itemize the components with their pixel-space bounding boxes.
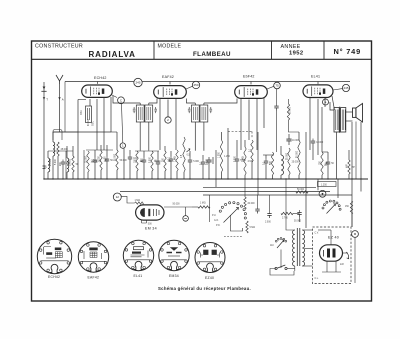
node N10 jack (319, 190, 326, 197)
svg-text:P.O.: P.O. (216, 225, 221, 227)
capacitor C5 (142, 158, 146, 165)
boxed label 1.250 (318, 182, 337, 187)
junction (43, 178, 44, 179)
IF transformer IFT1 (133, 105, 157, 122)
resistor R24a (281, 212, 293, 214)
wire (176, 171, 178, 179)
wire node N9 left (121, 196, 134, 203)
potentiometer P1 volume (183, 137, 191, 172)
svg-text:C.V.: C.V. (315, 233, 320, 235)
svg-text:10.000: 10.000 (316, 142, 324, 144)
tube V2 EAF42 envelope (154, 86, 187, 99)
resistor R17 (348, 160, 355, 174)
mains switch S3 (275, 265, 295, 270)
wire (321, 175, 323, 179)
wire (189, 165, 191, 180)
svg-text:50.000: 50.000 (173, 204, 181, 206)
wire (157, 151, 159, 160)
node N11 (352, 231, 359, 238)
wire V2 top to bus (169, 82, 171, 85)
svg-text:50.000: 50.000 (115, 153, 117, 161)
junction (143, 178, 144, 179)
svg-text:G.O.: G.O. (214, 220, 219, 222)
wire EZ40 anode top (330, 230, 332, 245)
wire R5 up (116, 132, 118, 150)
node N9 (113, 193, 121, 201)
svg-text:25.000: 25.000 (290, 106, 292, 114)
svg-text:RADIALVA: RADIALVA (89, 50, 136, 59)
power transformer T1 secondary (302, 230, 304, 266)
wire (298, 175, 300, 179)
svg-text:5.000: 5.000 (207, 159, 209, 165)
wire (272, 175, 274, 179)
wire (236, 164, 238, 180)
wire C20 to EL41 grid (276, 111, 278, 153)
wire (221, 172, 223, 179)
dashed AVC line (228, 131, 252, 133)
resistor R23a (296, 191, 308, 193)
wire (298, 132, 300, 140)
wire (251, 162, 253, 179)
svg-text:2.000: 2.000 (265, 222, 271, 224)
wire x216 bus to rail (215, 179, 217, 187)
wire node N3 down (276, 89, 278, 104)
svg-text:250: 250 (193, 83, 198, 87)
tube V3 EBF42 envelope (235, 86, 268, 99)
wire IFT2 right up (203, 103, 205, 105)
resistor R26 (287, 104, 289, 120)
capacitor C6 (156, 160, 160, 167)
svg-text:ECH42: ECH42 (94, 76, 107, 80)
wire antenna cluster top rail (53, 131, 78, 133)
node N4 (342, 84, 349, 91)
wire T1 primary top (286, 179, 295, 230)
svg-text:EZ 40: EZ 40 (328, 236, 339, 240)
svg-text:OSC: OSC (81, 110, 83, 115)
wire node N8 to V4 (324, 98, 327, 101)
junction (189, 178, 190, 179)
wire R1 down (57, 156, 59, 179)
svg-text:EbF42: EbF42 (243, 75, 255, 79)
dashed dial lamp wire (224, 236, 242, 238)
wire (202, 155, 204, 160)
wire cathode rail V4 (322, 151, 328, 153)
wire C4 up (129, 150, 131, 155)
capacitor C1 (61, 160, 71, 167)
capacitor C17 (255, 207, 259, 214)
wire R4 up (100, 145, 102, 151)
wire osc cathode stub (78, 99, 86, 101)
wire IFT1 to V2 (149, 99, 157, 104)
capacitor C20 (274, 104, 278, 111)
oscillator coil L2 (81, 106, 92, 123)
svg-text:1 MΩ: 1 MΩ (135, 200, 141, 202)
wire (183, 172, 185, 179)
wire IFT1 right down (148, 122, 150, 151)
wire (170, 151, 172, 157)
svg-text:2.700: 2.700 (282, 218, 288, 220)
socket X3 (123, 240, 153, 270)
svg-text:N° 749: N° 749 (334, 47, 361, 56)
junction (94, 178, 95, 179)
wire IFT2 right down (203, 122, 205, 151)
wire L1a down (52, 156, 54, 179)
wire L1b down (47, 172, 49, 179)
wire (151, 171, 153, 179)
wire left cluster tie (48, 150, 73, 152)
wire x361 drop (360, 179, 362, 192)
svg-text:Schéma général du récepteur Fl: Schéma général du récepteur Flambeau. (158, 286, 251, 291)
svg-text:75: 75 (275, 84, 279, 88)
wire (265, 166, 267, 180)
wire EZ40 output (343, 252, 349, 254)
wire (265, 155, 267, 159)
socket X5 (195, 243, 225, 273)
wire (348, 150, 350, 160)
dashed AVC drop (251, 132, 253, 139)
wire x216 down (215, 150, 217, 179)
tone switch S2 (322, 200, 341, 214)
wire (143, 165, 145, 180)
junction (327, 178, 328, 179)
wire x228 down (227, 128, 229, 179)
antenna A1 (earth/lead-in) (41, 82, 48, 179)
svg-text:ANNEE: ANNEE (281, 44, 301, 50)
svg-text:50.000: 50.000 (120, 160, 128, 162)
wire V1 pin down 2 (103, 98, 105, 150)
svg-text:ECH42: ECH42 (48, 275, 60, 279)
wire (288, 175, 290, 179)
junction (157, 178, 158, 179)
resistor R18 1 Mohm (135, 200, 144, 205)
wire R2 up (72, 146, 74, 156)
wire switch return loop (230, 215, 242, 231)
resistor R16 (321, 152, 329, 175)
wire V2 pin down 2 (175, 99, 177, 150)
wire V4 cathode down (321, 107, 323, 152)
junction (52, 178, 53, 179)
svg-text:1 MΩ: 1 MΩ (175, 156, 177, 162)
wire IFT1 right up (148, 103, 150, 105)
resistor R3 (87, 151, 99, 172)
svg-text:T: T (46, 98, 48, 102)
inductor L1a (53, 142, 55, 156)
wire (312, 146, 314, 161)
svg-text:5.000: 5.000 (235, 156, 237, 162)
wire OPT primary top (330, 102, 334, 110)
wire OPT to speaker (346, 111, 353, 113)
header separator line (32, 58, 372, 60)
wire T1 primary bottom (294, 266, 296, 271)
resistor R13 (271, 152, 273, 175)
wire rail IFT1 (135, 150, 159, 152)
wire C3 up (106, 145, 108, 157)
resistor R20b (198, 206, 210, 208)
wire mains lead (270, 269, 294, 276)
wire (202, 167, 204, 180)
wire IFT2 left up (194, 103, 196, 105)
wire x258 down (257, 132, 259, 179)
svg-text:OSC: OSC (93, 121, 95, 126)
IF transformer IFT2 (188, 105, 212, 122)
resistor R21a (244, 197, 246, 209)
inductor L1b (48, 158, 50, 172)
antenna coupling bracket (53, 130, 62, 141)
capacitor C12 (264, 159, 273, 166)
svg-text:HP: HP (352, 167, 356, 169)
svg-text:5.000: 5.000 (150, 157, 152, 163)
svg-text:C.L.: C.L. (315, 278, 320, 280)
capacitor C18 (267, 211, 271, 218)
tube EM34 (tuning indicator) (136, 205, 164, 220)
loudspeaker LS (353, 104, 363, 123)
junction (62, 178, 63, 179)
resistor R14 (288, 148, 300, 175)
wire x65 bus drop (64, 82, 66, 133)
junction (257, 178, 258, 179)
resistor R2 (72, 156, 79, 172)
capacitor C19 (297, 210, 301, 217)
svg-text:1.250: 1.250 (321, 185, 327, 187)
resistor R22a (246, 221, 248, 233)
wire tone net (293, 213, 300, 215)
resistor R12 (251, 140, 253, 162)
resistor P1 (183, 137, 191, 172)
wire x258 bus to rail (257, 179, 259, 195)
capacitor C9 (201, 160, 210, 167)
rail y187 (203, 186, 316, 188)
wire IFT2 to V2 plate (187, 99, 196, 104)
wire EZ40 legs (322, 261, 341, 272)
resistor R10 (220, 140, 230, 172)
socket X1 (37, 239, 71, 273)
rail y195 (203, 194, 352, 196)
wire T1 secondary taps (302, 229, 312, 231)
wire tuning gang rail (53, 131, 111, 133)
svg-text:MODELE: MODELE (158, 44, 182, 50)
wire L1c up (66, 146, 68, 158)
ground bus (44, 178, 368, 180)
junction (106, 178, 107, 179)
capacitor C3 (105, 157, 114, 164)
wire R26 top (288, 99, 290, 104)
junction (285, 178, 286, 179)
svg-text:1.250: 1.250 (219, 152, 221, 158)
dashed enclosure EZ40 rectifier (313, 227, 352, 284)
svg-text:245: 245 (135, 81, 140, 85)
wire V4 pin to node N8 (324, 98, 326, 107)
resistor R1 (57, 142, 69, 156)
wire x84 to bus (83, 150, 85, 179)
phono pickup PU (183, 207, 189, 221)
wire V4 top to bus (317, 82, 319, 85)
tube V5 EZ40 (320, 245, 343, 261)
wire OPT HT down (336, 132, 338, 179)
wire IFT1 left down (139, 122, 141, 151)
wire A2 into coil (52, 132, 54, 142)
wire V2 pin down (159, 99, 161, 150)
wire x352 into box (351, 214, 353, 227)
capacitor C10 pair (206, 157, 213, 179)
wire (348, 174, 350, 179)
svg-text:1952: 1952 (289, 51, 304, 57)
svg-text:EL41: EL41 (311, 75, 320, 79)
capacitor C13 pair (286, 134, 299, 145)
header cell divider 2 (271, 41, 273, 59)
left section top rail (77, 100, 79, 180)
wire V4 pin down (309, 98, 311, 150)
svg-text:H.P.: H.P. (347, 163, 349, 168)
svg-text:5 MΩ: 5 MΩ (250, 227, 256, 229)
svg-text:25.000: 25.000 (50, 158, 52, 166)
wire x318 drop (317, 179, 319, 190)
wire (327, 167, 329, 180)
resistor R5 (116, 150, 128, 170)
resistor R9 (176, 150, 178, 171)
wire N11 drop (354, 237, 356, 283)
inductor L3 (281, 155, 284, 175)
wire V4 to node N4 (333, 89, 343, 90)
capacitor C4 (128, 155, 138, 162)
wire (143, 151, 145, 158)
svg-text:EAF42: EAF42 (162, 75, 174, 79)
node N2 (192, 81, 199, 88)
wire EM34 right leads (164, 206, 192, 208)
capacitor C8 (188, 158, 200, 165)
wire EM34 bottom leads (142, 220, 147, 224)
wire (170, 164, 172, 180)
AVC rail (120, 191, 330, 193)
svg-text:40.000: 40.000 (88, 118, 90, 126)
output transformer T2 (334, 107, 346, 134)
wire V3 pin down (240, 99, 242, 150)
wire (236, 140, 238, 157)
wire R5 down (116, 170, 118, 179)
power transformer T1 primary (293, 230, 295, 266)
header cell divider 3 (323, 41, 325, 59)
junction (77, 178, 78, 179)
capacitor C2 (93, 158, 102, 165)
junction (123, 178, 124, 179)
node N3 (274, 82, 281, 89)
wire C4 down (129, 162, 131, 180)
power transformer T1 core (297, 228, 300, 266)
svg-text:1 MΩ: 1 MΩ (200, 202, 206, 204)
node N1 (134, 78, 142, 86)
resistor R15 (298, 140, 300, 175)
antenna A2 (56, 75, 64, 132)
wire R26 bottom (289, 120, 300, 132)
socket X4 (159, 240, 189, 270)
wire V3 to node N3 (267, 86, 274, 89)
wire line to pot (192, 206, 198, 208)
wire padder branch (111, 131, 117, 133)
node N5 (118, 97, 125, 104)
wire V1 pin down (96, 99, 98, 150)
wire EM34 left leads (142, 203, 144, 205)
wire x306 bus to rails (305, 179, 307, 228)
svg-text:2 MΩ: 2 MΩ (243, 156, 245, 162)
svg-text:EM34: EM34 (169, 274, 179, 278)
wire R4 down (100, 170, 102, 179)
svg-text:25.000: 25.000 (292, 162, 300, 164)
node N8 (323, 99, 329, 105)
tube V4 EL41 envelope (303, 85, 333, 98)
wire IFT2 to V3 (204, 99, 237, 104)
svg-text:5.000: 5.000 (193, 161, 199, 163)
capacitor C11 (235, 157, 247, 164)
wire (280, 146, 282, 155)
wire node N7 down (123, 148, 125, 179)
wire (164, 171, 166, 179)
wire L1b up (47, 151, 49, 158)
junction (170, 178, 171, 179)
svg-text:50.000: 50.000 (294, 221, 302, 223)
svg-text:50.000: 50.000 (297, 189, 305, 191)
wire C1 down (62, 167, 64, 180)
wire V1 pin down 3 (110, 97, 112, 132)
wire speaker voice coil return (355, 122, 357, 180)
wire (176, 149, 178, 151)
wire V1 to node N5 (112, 95, 117, 98)
wire grid rail V1 (86, 149, 113, 151)
wire (244, 140, 246, 147)
junction (351, 178, 352, 179)
wire (221, 132, 223, 140)
wire (280, 175, 282, 179)
output jack J1 (346, 252, 349, 259)
wire (136, 171, 138, 179)
wire (189, 151, 191, 158)
wire V3 pin down 3 (256, 99, 258, 150)
resistor R25a (350, 201, 352, 214)
wire (157, 167, 159, 180)
svg-text:EZ40: EZ40 (205, 276, 214, 280)
svg-text:CONSTRUCTEUR: CONSTRUCTEUR (35, 44, 83, 50)
resistor R4 (100, 151, 108, 170)
resistor R11 (244, 147, 254, 175)
svg-text:10.000: 10.000 (292, 140, 300, 142)
wire right edge down (360, 122, 362, 179)
junction (208, 178, 209, 179)
wire x209 vertical (209, 195, 211, 222)
junction (360, 178, 361, 179)
tube V1 ECH42 envelope (82, 85, 113, 97)
wire IFT1 to V1 plate (113, 96, 140, 103)
border frame (32, 41, 372, 301)
svg-text:EL41: EL41 (134, 274, 143, 278)
waveband switch S1 (219, 202, 246, 223)
wire V4 pin down 2 (317, 99, 319, 155)
socket X2 (78, 242, 108, 272)
wire V3 top to bus (250, 82, 252, 85)
wire V3 pin down 4 (263, 98, 265, 129)
node N6 (165, 117, 171, 123)
trimmer tick T1 (43, 166, 46, 168)
inductor L1c (67, 158, 69, 172)
svg-text:5.000: 5.000 (55, 159, 57, 165)
wire x338 drop (337, 179, 339, 198)
wire V2 to node N2 (186, 86, 193, 89)
svg-text:A: A (62, 98, 64, 102)
header cell divider 1 (153, 41, 155, 59)
capacitor C15 (326, 160, 335, 167)
capacitor C7 (169, 157, 173, 164)
wire V3 pin down 2 (248, 100, 250, 141)
wire L1c down (66, 172, 68, 179)
wire IFT1 left up (139, 103, 141, 105)
junction (305, 178, 306, 179)
